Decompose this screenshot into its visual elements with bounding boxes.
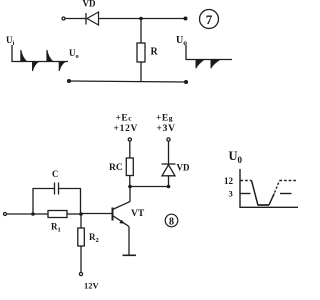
svg-text:RC: RC <box>109 163 123 173</box>
wire: R1 to base junction <box>67 213 81 215</box>
svg-text:+Eg: +Eg <box>156 114 173 124</box>
resistor R <box>137 43 145 62</box>
wire: RC to collector junction <box>129 176 131 187</box>
svg-text:8: 8 <box>169 216 174 227</box>
circled figure number 7 <box>200 10 219 29</box>
svg-text:12: 12 <box>224 176 234 186</box>
resistor R2 <box>78 228 85 246</box>
node: top-left input terminal of circuit 7 <box>62 17 65 20</box>
wire: capacitor branch right side <box>59 189 81 215</box>
svg-text:3: 3 <box>229 189 233 199</box>
svg-text:+3V: +3V <box>157 124 176 134</box>
node: bottom-right terminal dot <box>184 80 188 84</box>
svg-text:Uo: Uo <box>69 48 79 60</box>
wire: diode anode to output terminal <box>99 18 186 20</box>
waveform Uo negative spikes <box>196 60 220 69</box>
wire: input terminal to diode VD cathode <box>65 18 86 20</box>
svg-text:+Ec: +Ec <box>116 114 133 124</box>
node: bottom-left terminal dot <box>67 79 71 83</box>
svg-text:7: 7 <box>206 12 213 27</box>
wire: bottom lead of R2 <box>80 246 82 272</box>
svg-text:VD: VD <box>83 0 96 9</box>
graph: dashed level-12 segment right <box>280 180 298 182</box>
graph: falling edge <box>252 181 259 206</box>
node: junction at base / R2 <box>79 212 83 216</box>
node: +Eg supply terminal <box>167 138 170 141</box>
waveform Ui axes <box>12 45 68 62</box>
wire: +Ec terminal to RC <box>129 141 131 158</box>
svg-text:U0: U0 <box>229 149 243 165</box>
ground <box>123 254 137 256</box>
wire: top lead of R2 <box>80 214 82 228</box>
resistor RC <box>126 158 133 176</box>
wire: +Eg terminal to diode VD cathode <box>168 141 170 164</box>
diode VD (clamp, cathode bar on top, arrow pointing up) <box>162 164 176 176</box>
transistor VT <box>113 202 131 227</box>
graph axes U0 vs t <box>240 169 298 207</box>
node: +Ec supply terminal <box>128 138 131 141</box>
svg-text:VD: VD <box>177 163 190 173</box>
node: junction left of R1 <box>31 212 35 216</box>
svg-text:R: R <box>151 47 159 58</box>
wire: collector to diode VD anode <box>130 186 169 188</box>
graph: rising edge solid lower part <box>269 194 274 206</box>
diode VD (series, cathode bar on left) <box>86 12 99 25</box>
svg-text:C: C <box>52 169 59 179</box>
node: -12V supply terminal <box>79 272 82 275</box>
svg-text:+12V: +12V <box>114 124 139 134</box>
wire: emitter lead down <box>128 227 130 256</box>
node: input terminal of circuit 8 <box>4 213 7 216</box>
graph: bottom level segment <box>258 204 270 206</box>
graph: rising edge dashed upper part <box>273 181 280 197</box>
wire: capacitor branch left side <box>33 189 55 215</box>
wire: bottom lead of resistor R <box>140 62 142 82</box>
graph: dashed level-12 segment left <box>241 180 252 182</box>
capacitor C <box>55 183 59 195</box>
svg-text:12V: 12V <box>84 281 100 291</box>
waveform Uo axes <box>186 45 232 60</box>
wire: VD anode down to junction <box>168 176 170 187</box>
node: junction at top of resistor R <box>139 17 143 21</box>
wire: bottom rail of circuit 7 <box>69 81 186 82</box>
node: top-right output terminal of circuit 7 <box>184 17 188 21</box>
resistor R1 <box>48 211 67 218</box>
wire: collector lead up <box>129 187 131 202</box>
waveform Ui spikes (differentiated pulses) <box>21 50 66 71</box>
svg-text:R2: R2 <box>89 232 99 244</box>
graph: solid level-3 segment right <box>280 193 292 195</box>
wire: junction to R1 <box>33 213 48 215</box>
wire: junction to transistor base <box>81 213 113 215</box>
svg-text:Ui: Ui <box>6 35 15 47</box>
svg-text:R1: R1 <box>51 222 61 234</box>
circled figure number 8 <box>165 214 178 227</box>
node: collector junction <box>128 185 132 189</box>
wire: top lead of resistor R <box>140 19 142 44</box>
graph: solid level-3 segment left <box>241 193 251 195</box>
wire: input to first junction <box>7 213 33 215</box>
node: junction at VD anode <box>167 185 171 189</box>
svg-text:VT: VT <box>131 209 145 219</box>
